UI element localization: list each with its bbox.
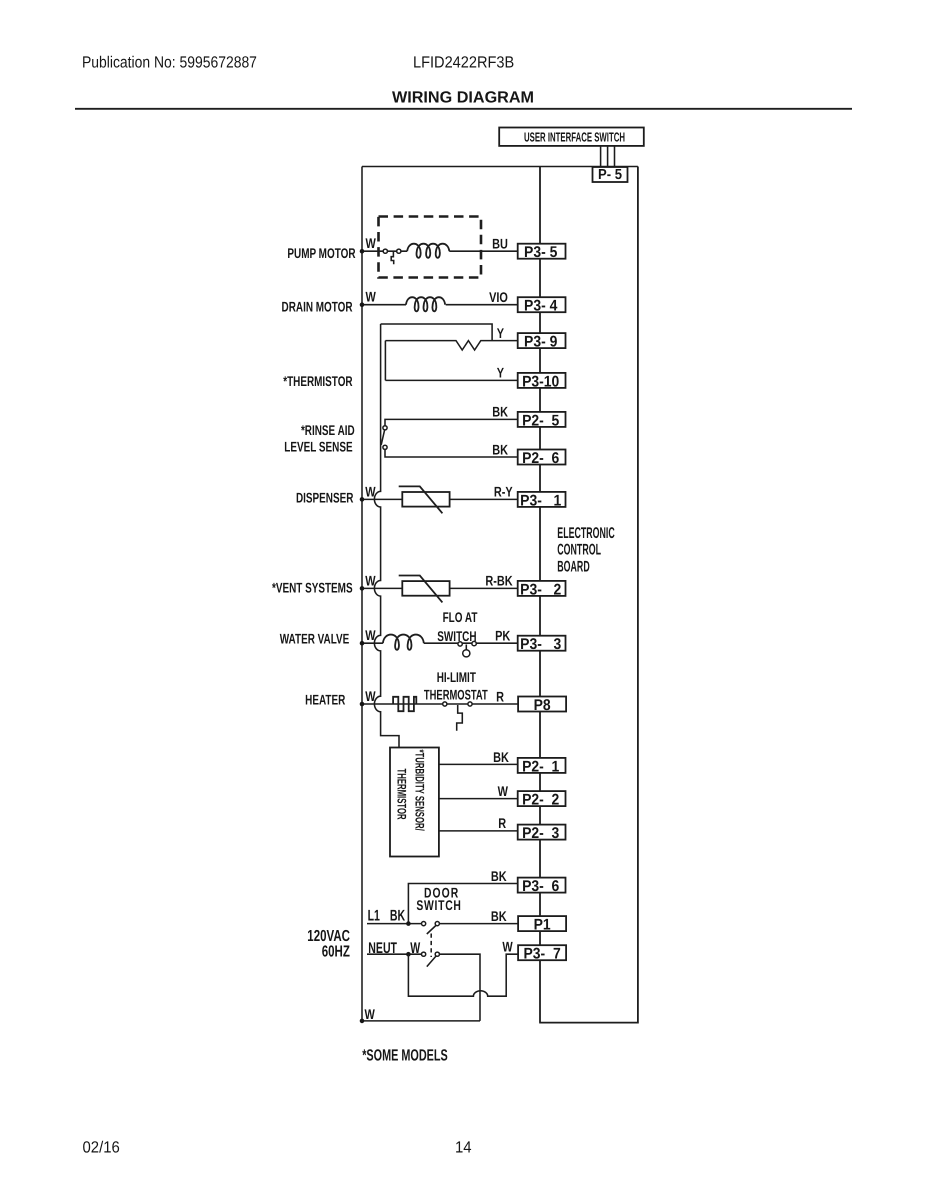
wire vent systems	[362, 587, 518, 589]
node heater junction	[360, 702, 365, 707]
inductor drain motor winding	[406, 297, 445, 311]
wire door switch to P3-6	[408, 884, 517, 924]
svg-text:WIRING DIAGRAM: WIRING DIAGRAM	[392, 89, 534, 107]
svg-text:USER INTERFACE SWITCH: USER INTERFACE SWITCH	[524, 130, 625, 145]
svg-text:P3- 1: P3- 1	[520, 492, 561, 509]
svg-text:W: W	[366, 235, 377, 251]
svg-text:BU: BU	[492, 236, 508, 252]
wire thermistor link vertical	[384, 341, 386, 381]
connector P3-5	[518, 244, 566, 259]
svg-text:*VENT SYSTEMS: *VENT SYSTEMS	[272, 579, 353, 595]
outer box left edge	[361, 167, 363, 1021]
svg-text:WATER VALVE: WATER VALVE	[280, 630, 350, 646]
switch pump motor	[383, 249, 387, 253]
box USER INTERFACE SWITCH	[499, 128, 644, 146]
svg-text:THERMOSTAT: THERMOSTAT	[424, 687, 488, 703]
connector P3-2	[518, 581, 566, 596]
svg-text:P2- 6: P2- 6	[522, 450, 560, 467]
svg-text:L1: L1	[368, 908, 381, 925]
svg-text:P3- 2: P3- 2	[520, 581, 561, 598]
connector P3-1	[518, 492, 566, 507]
outer box top edge	[362, 166, 638, 168]
svg-text:Y: Y	[497, 325, 505, 341]
inductor water valve coil	[383, 635, 424, 650]
node water valve junction	[360, 641, 365, 646]
node NEUT junction	[406, 952, 411, 957]
svg-text:LEVEL SENSE: LEVEL SENSE	[284, 438, 352, 454]
wire thermistor to P3-9 with resistor	[385, 341, 517, 350]
svg-text:BK: BK	[390, 908, 406, 925]
wire NEUT return loop with hop	[408, 954, 518, 996]
svg-text:W: W	[365, 1006, 376, 1022]
svg-text:BK: BK	[491, 908, 507, 924]
svg-text:PUMP MOTOR: PUMP MOTOR	[287, 245, 355, 261]
inductor pump motor winding	[407, 244, 449, 258]
svg-text:FLO AT: FLO AT	[443, 609, 478, 625]
svg-text:SWITCH: SWITCH	[437, 628, 476, 644]
wire rinse aid to P2-6	[385, 449, 518, 457]
svg-text:P- 5: P- 5	[598, 167, 622, 183]
connector P2-2	[518, 791, 566, 806]
node bottom W junction	[360, 1019, 365, 1024]
svg-text:P2- 3: P2- 3	[522, 825, 560, 842]
node drain motor junction	[360, 302, 365, 307]
svg-text:R-Y: R-Y	[494, 484, 513, 500]
svg-text:BK: BK	[491, 868, 507, 884]
svg-text:Y: Y	[497, 365, 505, 381]
wire L1 to P1	[439, 923, 517, 925]
svg-text:BK: BK	[493, 749, 509, 765]
svg-text:P2- 5: P2- 5	[522, 412, 560, 429]
svg-text:P3- 5: P3- 5	[524, 244, 558, 261]
connector P3-3	[518, 636, 566, 651]
switch door NEUT contacts	[422, 952, 426, 956]
wires UI switch to P-5	[601, 146, 615, 167]
svg-text:02/16: 02/16	[83, 1138, 120, 1156]
svg-text:P2- 2: P2- 2	[522, 792, 559, 809]
svg-text:P1: P1	[534, 917, 551, 934]
connector P2-6	[518, 450, 566, 465]
svg-text:W: W	[365, 688, 376, 704]
svg-text:120VAC: 120VAC	[307, 928, 350, 945]
svg-text:P3-10: P3-10	[522, 373, 559, 390]
svg-text:LFID2422RF3B: LFID2422RF3B	[413, 54, 514, 72]
svg-text:DRAIN MOTOR: DRAIN MOTOR	[282, 298, 353, 314]
thermostat link stepped	[457, 705, 463, 731]
wire thermistor top link	[381, 324, 493, 341]
svg-text:HEATER: HEATER	[305, 692, 345, 708]
connector P1	[518, 916, 566, 931]
svg-text:14: 14	[455, 1138, 472, 1156]
float stem and ball	[465, 645, 467, 650]
node pump motor junction	[360, 249, 365, 254]
wire water valve	[362, 642, 518, 644]
header rule	[75, 108, 852, 110]
wire pump motor	[362, 250, 518, 252]
svg-text:60HZ: 60HZ	[322, 943, 350, 960]
connector P3-6	[518, 878, 566, 893]
switch door L1 contacts	[422, 922, 426, 926]
svg-text:W: W	[366, 289, 377, 305]
svg-text:*SOME MODELS: *SOME MODELS	[362, 1046, 448, 1064]
svg-text:CONTROL: CONTROL	[557, 542, 601, 559]
svg-text:*TURBIDITY SENSOR/: *TURBIDITY SENSOR/	[412, 750, 426, 832]
switch hi-limit thermostat	[443, 702, 447, 706]
svg-text:R: R	[498, 815, 506, 831]
wax motor vent	[402, 581, 449, 596]
wire rinse aid to P2-5	[385, 419, 518, 425]
svg-text:VIO: VIO	[489, 289, 508, 305]
wire turbidity to P2-1	[439, 763, 518, 765]
wire main vertical with hops	[374, 324, 399, 748]
node L1 junction	[406, 921, 411, 926]
svg-text:P3- 6: P3- 6	[522, 878, 560, 895]
svg-text:NEUT: NEUT	[368, 940, 397, 957]
wire dispenser	[362, 498, 518, 500]
node vent junction	[360, 586, 365, 591]
svg-text:P3- 7: P3- 7	[523, 946, 560, 963]
svg-text:*THERMISTOR: *THERMISTOR	[283, 373, 352, 389]
svg-text:W: W	[365, 627, 376, 643]
connector P2-3	[518, 825, 566, 840]
switch rinse aid level sense	[383, 426, 387, 430]
electronic control board column	[539, 167, 639, 1023]
heater element	[393, 697, 416, 711]
node dispenser junction	[360, 497, 365, 502]
dashed link door switch	[430, 934, 432, 958]
switch float contacts	[458, 642, 462, 646]
wire NEUT switch to bottom	[439, 954, 480, 1021]
svg-text:P3- 4: P3- 4	[524, 298, 558, 315]
connector P3-7	[518, 945, 566, 960]
wire thermistor to P3-10	[385, 379, 517, 381]
wire bottom W	[362, 1020, 480, 1022]
svg-text:PK: PK	[495, 627, 510, 643]
pump thermal protector hook	[391, 251, 394, 264]
svg-text:W: W	[498, 783, 509, 799]
svg-text:W: W	[365, 572, 376, 588]
svg-text:HI-LIMIT: HI-LIMIT	[437, 669, 477, 685]
svg-text:W: W	[502, 939, 513, 955]
svg-text:R: R	[496, 688, 504, 704]
wire drain motor	[362, 304, 518, 306]
svg-text:W: W	[365, 483, 376, 499]
svg-text:P8: P8	[534, 697, 551, 714]
connector P2-5	[518, 412, 566, 427]
connector P-5	[593, 167, 628, 182]
connector P3-4	[518, 297, 566, 312]
svg-text:BOARD: BOARD	[557, 559, 589, 576]
connector P8	[518, 697, 566, 712]
wire turbidity to P2-3	[439, 830, 518, 832]
wire L1	[367, 923, 422, 925]
svg-text:THERMISTOR: THERMISTOR	[395, 769, 409, 820]
wire turbidity to P2-2	[439, 798, 518, 800]
box turbidity sensor	[390, 748, 439, 857]
switch door NEUT blade	[427, 956, 437, 967]
svg-text:ELECTRONIC: ELECTRONIC	[557, 525, 614, 542]
svg-text:*RINSE AID: *RINSE AID	[301, 422, 355, 438]
wire heater	[362, 703, 518, 705]
svg-text:BK: BK	[492, 441, 508, 457]
svg-text:P2- 1: P2- 1	[522, 758, 560, 775]
connector P2-1	[518, 758, 566, 773]
svg-text:Publication No: 5995672887: Publication No: 5995672887	[82, 54, 257, 72]
svg-text:P3- 3: P3- 3	[520, 636, 561, 653]
svg-text:SWITCH: SWITCH	[416, 897, 461, 913]
svg-text:BK: BK	[492, 404, 508, 420]
wax motor dispenser	[402, 492, 449, 507]
wire NEUT	[367, 953, 422, 955]
svg-text:DISPENSER: DISPENSER	[296, 490, 353, 506]
switch door L1 blade	[427, 925, 437, 934]
connector P3-10	[518, 373, 566, 388]
connector P3-9	[518, 333, 566, 348]
dashed box pump motor	[379, 217, 482, 278]
svg-text:R-BK: R-BK	[485, 573, 512, 589]
svg-text:P3- 9: P3- 9	[524, 334, 558, 351]
svg-text:W: W	[410, 940, 420, 957]
